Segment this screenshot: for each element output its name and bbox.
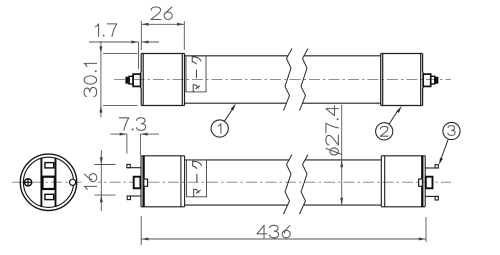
mark text bottom view [193, 161, 202, 196]
dimension 436 [141, 216, 426, 245]
lamp cap right (bottom view) [381, 156, 425, 207]
end view side hole [70, 179, 76, 185]
dimension 30.1 [84, 41, 137, 118]
dimension 26 [141, 7, 184, 50]
latch tab right (bottom view) [419, 179, 423, 186]
mark box bottom view [187, 160, 207, 197]
centerline bottom view [12, 181, 451, 183]
break lines bottom view [284, 155, 309, 215]
end view top slot [45, 163, 54, 168]
dimension 16 [84, 150, 116, 211]
hook top-right [425, 165, 438, 168]
mark box top view [186, 56, 206, 92]
end view bottom slot [45, 194, 54, 199]
end view screw [24, 178, 32, 186]
callout 2 [376, 106, 402, 140]
hook bottom-right [425, 196, 438, 200]
end view contact band [41, 158, 55, 207]
end view inner circle [23, 157, 73, 207]
lamp cap right (top view) [381, 54, 424, 106]
centerline top view [114, 79, 451, 81]
lamp cap left (top view) [140, 54, 184, 106]
break lines top view [284, 49, 309, 111]
G13 pin left [126, 74, 141, 86]
dimension phi 27.4 [326, 105, 343, 205]
G13 pin right [423, 74, 438, 86]
glass tube bottom view [185, 160, 382, 205]
end view outer circle [20, 154, 76, 210]
hook top-left [127, 164, 141, 167]
dimension 1.7 [89, 24, 159, 69]
hook bottom-left [127, 196, 141, 200]
connector boss right (bottom view) [426, 177, 433, 189]
callout 1 [211, 103, 236, 137]
lamp cap left (bottom view) [141, 156, 185, 207]
callout 3 [439, 122, 460, 165]
dimension 7.3 [110, 118, 159, 156]
connector boss left (bottom view) [134, 177, 141, 189]
latch tab left (bottom view) [144, 179, 148, 186]
mark text top view [192, 57, 201, 92]
end view middle socket [43, 177, 55, 189]
glass tube top view [185, 56, 381, 103]
